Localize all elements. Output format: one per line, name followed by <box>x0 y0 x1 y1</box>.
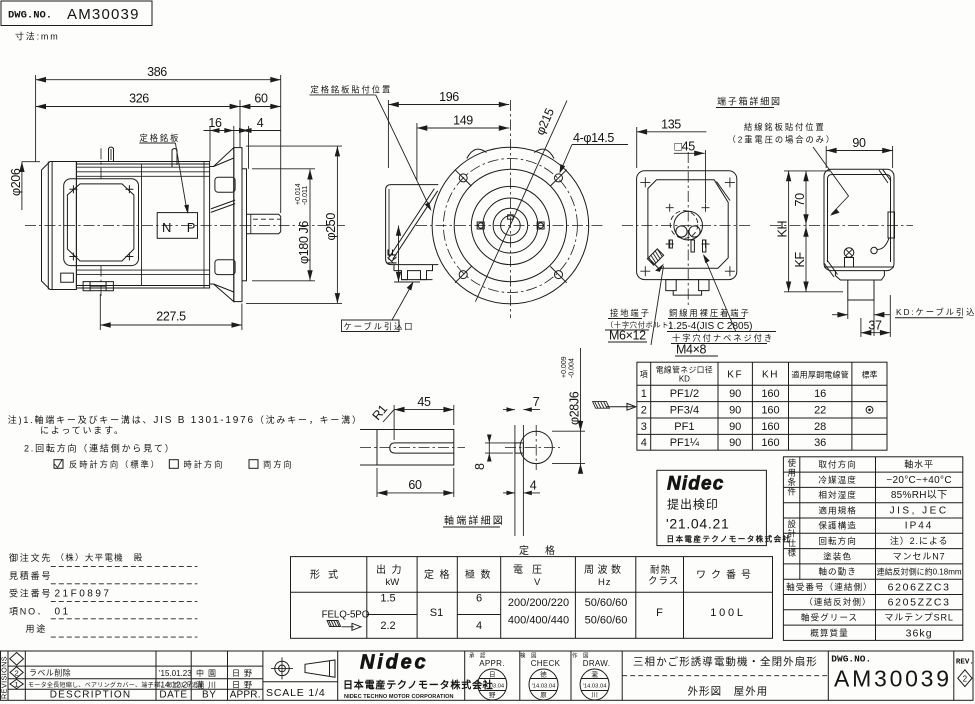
svg-text:22: 22 <box>814 404 826 416</box>
svg-text:KF: KF <box>386 249 400 265</box>
svg-text:KH: KH <box>762 370 779 381</box>
svg-text:'15.01.23: '15.01.23 <box>159 669 192 678</box>
svg-text:結線銘板貼付位置: 結線銘板貼付位置 <box>744 122 826 132</box>
svg-text:φ206: φ206 <box>9 168 23 196</box>
inner + marks <box>666 204 710 248</box>
svg-text:PF1: PF1 <box>674 421 694 433</box>
svg-text:4: 4 <box>530 479 537 493</box>
svg-text:JIS, JEC: JIS, JEC <box>890 505 949 516</box>
svg-text:軸の動き: 軸の動き <box>818 566 857 577</box>
svg-text:φ28J6: φ28J6 <box>568 391 582 425</box>
svg-text:Nidec: Nidec <box>360 652 428 674</box>
svg-text:KH: KH <box>776 221 790 238</box>
svg-text:塗装色: 塗装色 <box>823 550 852 561</box>
svg-text:'21.04.21: '21.04.21 <box>666 516 729 532</box>
svg-text:2.回転方向（連結側から見て）: 2.回転方向（連結側から見て） <box>24 443 176 454</box>
svg-text:銅線用裸圧着端子: 銅線用裸圧着端子 <box>669 308 751 318</box>
svg-text:326: 326 <box>129 92 149 106</box>
svg-text:KF: KF <box>727 370 743 381</box>
svg-text:36: 36 <box>814 437 826 449</box>
svg-text:4: 4 <box>476 620 482 632</box>
feet under body <box>83 282 113 291</box>
svg-text:Hz: Hz <box>598 577 612 588</box>
svg-text:反時計方向（標準）: 反時計方向（標準） <box>69 460 161 470</box>
svg-text:日: 日 <box>489 671 496 679</box>
svg-text:S1: S1 <box>430 607 443 619</box>
svg-text:−20°C~+40°C: −20°C~+40°C <box>886 475 952 486</box>
svg-text:135: 135 <box>661 118 681 132</box>
svg-text:φ180 J6: φ180 J6 <box>297 221 311 264</box>
svg-text:90: 90 <box>729 404 741 416</box>
svg-text:100L: 100L <box>710 607 745 619</box>
svg-text:見積番号: 見積番号 <box>9 570 52 581</box>
lifting lug bumps on rim <box>467 149 487 158</box>
svg-text:条: 条 <box>788 477 797 487</box>
svg-text:4-φ14.5: 4-φ14.5 <box>573 131 614 145</box>
svg-text:CHECK: CHECK <box>531 659 561 668</box>
svg-text:DWG.NO.: DWG.NO. <box>8 10 52 22</box>
centerlines <box>416 225 604 227</box>
dim 149 <box>417 127 509 129</box>
svg-text:6205ZZC3: 6205ZZC3 <box>888 597 951 609</box>
svg-text:設: 設 <box>788 519 797 529</box>
svg-text:外形図 屋外用: 外形図 屋外用 <box>688 686 769 698</box>
svg-text:2: 2 <box>963 675 968 684</box>
svg-text:軸受番号（連結側）: 軸受番号（連結側） <box>786 581 873 592</box>
svg-text:'14.03.04: '14.03.04 <box>532 684 556 690</box>
svg-text:軸端詳細図: 軸端詳細図 <box>444 514 505 527</box>
svg-text:受注番号: 受注番号 <box>9 588 52 599</box>
svg-text:件: 件 <box>788 487 797 497</box>
svg-text:R1: R1 <box>370 402 391 423</box>
category vertical labels <box>788 458 797 558</box>
svg-text:定格: 定格 <box>424 568 455 581</box>
svg-text:FELQ-5PO: FELQ-5PO <box>322 610 370 621</box>
svg-text:回転方向: 回転方向 <box>818 535 857 546</box>
centerline <box>25 225 345 227</box>
values <box>877 459 962 640</box>
dim 7 top <box>503 409 515 411</box>
svg-text:4: 4 <box>257 116 264 130</box>
svg-text:寸法:mm: 寸法:mm <box>15 31 60 42</box>
svg-text:90: 90 <box>729 437 741 449</box>
svg-text:出力: 出力 <box>376 563 407 576</box>
svg-text:196: 196 <box>439 90 459 104</box>
svg-text:保護構造: 保護構造 <box>818 520 857 531</box>
svg-text:形式: 形式 <box>310 568 346 581</box>
shaft <box>247 214 281 234</box>
svg-text:1: 1 <box>641 388 647 400</box>
dim phi206 <box>21 162 23 210</box>
svg-text:KF: KF <box>793 252 807 268</box>
svg-text:定格: 定格 <box>519 544 571 557</box>
svg-text:M6×12: M6×12 <box>609 329 646 343</box>
dim 386 <box>36 79 281 81</box>
svg-text:1.25-4(JIS C 2805): 1.25-4(JIS C 2805) <box>668 321 753 332</box>
svg-text:定格銘板: 定格銘板 <box>140 133 181 143</box>
KD arrows at neck <box>832 314 848 316</box>
svg-text:70: 70 <box>793 193 807 207</box>
pilot step <box>242 169 247 281</box>
dim 326 <box>36 106 240 108</box>
table frame <box>637 362 887 450</box>
key cross-section <box>515 443 524 453</box>
outer circle <box>432 147 589 304</box>
svg-text:APPR.: APPR. <box>230 690 261 701</box>
svg-text:149: 149 <box>453 114 473 128</box>
left row lines <box>8 665 263 667</box>
conduit plug on right wall <box>888 212 895 238</box>
svg-text:28: 28 <box>814 421 826 433</box>
4 flange holes with diagonal ticks <box>455 170 567 283</box>
terminal screws <box>669 240 706 252</box>
70 / KF dims <box>805 171 807 292</box>
svg-text:50/60/60: 50/60/60 <box>585 615 628 627</box>
svg-text:用途: 用途 <box>26 623 48 634</box>
svg-text:（連結反対側）: （連結反対側） <box>804 596 871 607</box>
svg-text:SCALE 1/4: SCALE 1/4 <box>266 687 326 699</box>
svg-text:DATE: DATE <box>159 690 187 701</box>
svg-text:AM30039: AM30039 <box>834 666 952 692</box>
svg-text:軸受グリース: 軸受グリース <box>801 612 858 623</box>
checkbox 3 <box>249 460 258 469</box>
dim phi250 <box>336 146 338 303</box>
svg-text:項NO．: 項NO． <box>9 607 48 617</box>
svg-text:160: 160 <box>761 404 779 416</box>
svg-text:1.5: 1.5 <box>380 593 395 605</box>
svg-text:瀧: 瀧 <box>591 670 598 679</box>
dim phi180 J6 <box>309 169 311 280</box>
inner cover octagon <box>648 180 728 268</box>
svg-text:90: 90 <box>852 136 866 150</box>
keyway slot <box>390 443 454 453</box>
svg-text:21F0897: 21F0897 <box>55 589 112 600</box>
svg-text:227.5: 227.5 <box>156 310 186 324</box>
svg-text:瀧川: 瀧川 <box>196 679 220 689</box>
center gland circle <box>674 211 703 240</box>
dim 90 <box>826 150 892 152</box>
svg-text:注）2.による: 注）2.による <box>890 535 949 546</box>
svg-text:1: 1 <box>15 680 19 689</box>
svg-text:PF1¼: PF1¼ <box>670 437 700 449</box>
svg-text:45: 45 <box>417 395 431 409</box>
svg-text:川: 川 <box>591 692 598 699</box>
svg-text:+0.009: +0.009 <box>561 356 568 378</box>
svg-text:野: 野 <box>489 691 496 699</box>
corner + marks <box>640 177 735 276</box>
svg-text:M4×8: M4×8 <box>676 343 707 357</box>
standard mark double circle <box>866 406 873 413</box>
svg-text:16: 16 <box>208 116 222 130</box>
svg-text:日本電産テクノモータ株式会社: 日本電産テクノモータ株式会社 <box>343 679 494 692</box>
svg-text:用: 用 <box>788 468 797 478</box>
glands below box <box>666 280 709 291</box>
svg-text:+0.014: +0.014 <box>295 183 302 205</box>
svg-text:三相かご形誘導電動機・全閉外扇形: 三相かご形誘導電動機・全閉外扇形 <box>633 655 818 668</box>
svg-text:原: 原 <box>540 691 547 699</box>
svg-text:マルテンプSRL: マルテンプSRL <box>884 613 953 623</box>
svg-text:Nidec: Nidec <box>667 474 724 495</box>
svg-text:（株）大平電機 殿: （株）大平電機 殿 <box>56 553 144 563</box>
phi28 dim <box>552 430 585 432</box>
svg-text:4: 4 <box>641 437 647 449</box>
cable glands below box <box>394 265 433 280</box>
svg-text:6: 6 <box>476 593 482 605</box>
svg-text:'14.12.27: '14.12.27 <box>159 680 192 689</box>
centerlines <box>687 152 689 308</box>
svg-text:相対湿度: 相対湿度 <box>818 489 857 500</box>
svg-text:中園: 中園 <box>196 668 220 678</box>
svg-text:85%RH以下: 85%RH以下 <box>891 490 948 501</box>
svg-text:REVISIONS: REVISIONS <box>0 656 9 699</box>
svg-text:'14.03.04: '14.03.04 <box>480 684 504 690</box>
motor body <box>76 162 209 289</box>
svg-text:37: 37 <box>868 319 882 333</box>
svg-text:200/200/220: 200/200/220 <box>508 597 569 609</box>
svg-text:ケーブル引込口: ケーブル引込口 <box>344 322 415 332</box>
svg-text:160: 160 <box>761 388 779 400</box>
wire <box>877 238 890 250</box>
2 side tapped holes <box>477 222 544 229</box>
svg-text:3: 3 <box>641 421 647 433</box>
spigot circle <box>454 169 566 281</box>
svg-text:V: V <box>534 577 541 588</box>
svg-text:-0.004: -0.004 <box>569 358 576 378</box>
svg-text:適用厚鋼電線管: 適用厚鋼電線管 <box>791 370 849 380</box>
svg-text:御注文先: 御注文先 <box>9 552 52 563</box>
svg-text:φ250: φ250 <box>324 213 338 241</box>
svg-text:標準: 標準 <box>862 370 878 380</box>
dim 16 and 4 <box>204 130 281 132</box>
svg-text:様: 様 <box>788 548 797 558</box>
frame <box>1 651 974 700</box>
shaft circle with key <box>501 216 521 236</box>
svg-text:50/60/60: 50/60/60 <box>585 597 628 609</box>
phi215 leader diagonal <box>475 101 567 302</box>
svg-text:16: 16 <box>814 388 826 400</box>
svg-text:□45: □45 <box>675 140 696 154</box>
svg-text:90: 90 <box>729 421 741 433</box>
svg-text:400/400/440: 400/400/440 <box>508 615 569 627</box>
centerlines <box>770 225 913 227</box>
end view circle <box>520 431 552 463</box>
svg-text:160: 160 <box>761 421 779 433</box>
svg-text:（2重電圧の場合のみ）: （2重電圧の場合のみ） <box>728 135 837 145</box>
dim 4 bottom <box>503 492 515 494</box>
bolt circle dash-dot <box>443 159 577 293</box>
svg-text:6206ZZC3: 6206ZZC3 <box>888 581 951 593</box>
flange plate <box>234 148 242 302</box>
svg-text:KD:ケーブル引込口: KD:ケーブル引込口 <box>896 307 975 317</box>
checkbox 2 <box>169 460 178 469</box>
svg-text:2: 2 <box>15 668 19 677</box>
svg-text:F: F <box>656 607 663 619</box>
svg-text:ワク番号: ワク番号 <box>696 569 756 581</box>
svg-text:定格銘板貼付位置: 定格銘板貼付位置 <box>311 85 393 95</box>
svg-text:φ215: φ215 <box>533 106 557 137</box>
svg-text:注)1.軸端キー及びキー溝は、JIS B 1301-1976: 注)1.軸端キー及びキー溝は、JIS B 1301-1976（沈みキー，キー溝） <box>8 414 363 426</box>
flange bracket <box>210 148 234 302</box>
svg-text:REV.: REV. <box>956 659 974 667</box>
svg-text:DWG.NO.: DWG.NO. <box>831 654 871 665</box>
dim 60 <box>240 106 281 108</box>
dim 45 <box>394 409 454 411</box>
svg-text:'14.03.04: '14.03.04 <box>583 684 607 690</box>
KH dim <box>788 171 790 292</box>
svg-text:8: 8 <box>473 463 487 470</box>
svg-text:電線管ネジ口径: 電線管ネジ口径 <box>656 365 713 375</box>
svg-text:90: 90 <box>729 388 741 400</box>
svg-text:概算質量: 概算質量 <box>810 627 849 638</box>
terminal box cover seen in side view <box>64 179 139 266</box>
checkbox checked <box>54 460 63 469</box>
svg-text:徳: 徳 <box>540 670 547 679</box>
svg-text:日野: 日野 <box>232 680 256 689</box>
svg-text:-0.011: -0.011 <box>302 186 309 205</box>
rows <box>641 388 827 449</box>
svg-text:160: 160 <box>761 437 779 449</box>
svg-text:01: 01 <box>55 607 71 618</box>
svg-text:PF1/2: PF1/2 <box>670 388 699 400</box>
svg-text:2: 2 <box>641 404 647 416</box>
svg-text:耐熱: 耐熱 <box>650 564 671 576</box>
svg-text:両方向: 両方向 <box>263 460 294 470</box>
bottom gland <box>835 271 884 280</box>
dim 227.5 <box>100 324 242 326</box>
svg-text:KD: KD <box>679 375 690 384</box>
labels <box>786 459 873 638</box>
svg-text:APPR.: APPR. <box>479 659 505 668</box>
dim 196 <box>388 104 509 106</box>
terminal box on left <box>386 185 439 265</box>
37 dim <box>861 332 890 334</box>
ground screw hatched <box>647 249 663 265</box>
svg-text:DRAW.: DRAW. <box>583 659 611 668</box>
svg-text:極数: 極数 <box>465 568 496 581</box>
revision diamonds <box>10 653 24 666</box>
svg-text:電圧: 電圧 <box>513 564 551 576</box>
svg-text:提出検印: 提出検印 <box>667 497 719 512</box>
svg-text:60: 60 <box>408 478 422 492</box>
svg-text:クラス: クラス <box>648 576 679 587</box>
svg-text:N P: N P <box>162 220 201 235</box>
hatch flag pointing to row 2 <box>593 402 610 409</box>
slanted nameplate on box <box>390 189 438 259</box>
slant ticks <box>879 169 891 183</box>
svg-text:日本電産テクノモータ株式会社: 日本電産テクノモータ株式会社 <box>667 534 792 544</box>
dim 135 <box>637 131 707 133</box>
svg-text:使: 使 <box>788 458 797 468</box>
svg-text:接地端子: 接地端子 <box>610 308 651 318</box>
stamp columns <box>469 652 610 669</box>
svg-text:冷媒温度: 冷媒温度 <box>818 474 857 485</box>
side view of shaft end <box>377 430 454 466</box>
svg-text:周波数: 周波数 <box>584 563 625 576</box>
svg-text:日野: 日野 <box>232 669 256 678</box>
extension lines top dims <box>35 75 37 162</box>
svg-text:十字穴付ナベネジ付き: 十字穴付ナベネジ付き <box>672 333 774 343</box>
svg-text:60: 60 <box>254 92 268 106</box>
svg-text:7: 7 <box>533 395 540 409</box>
svg-text:取付方向: 取付方向 <box>818 459 857 470</box>
box outline <box>637 171 737 280</box>
dim 8 left <box>488 436 490 458</box>
svg-text:項: 項 <box>640 370 648 379</box>
svg-text:2.2: 2.2 <box>380 620 395 632</box>
svg-text:連結反対側に約0.18mm: 連結反対側に約0.18mm <box>877 567 962 577</box>
dim 60 <box>377 492 454 494</box>
svg-text:適用規格: 適用規格 <box>818 504 857 515</box>
svg-text:軸水平: 軸水平 <box>904 459 934 470</box>
svg-text:386: 386 <box>147 65 167 79</box>
eye bolts on top <box>109 147 114 162</box>
svg-text:DESCRIPTION: DESCRIPTION <box>50 690 132 701</box>
svg-text:IP44: IP44 <box>905 521 934 532</box>
svg-text:BY: BY <box>202 690 217 701</box>
svg-text:端子箱詳細図: 端子箱詳細図 <box>717 96 782 107</box>
svg-text:AM30039: AM30039 <box>67 6 140 23</box>
svg-text:ラベル削除: ラベル削除 <box>29 668 71 678</box>
fan cover <box>42 162 77 290</box>
KF dimension <box>398 226 400 283</box>
svg-text:マンセルN7: マンセルN7 <box>893 551 946 561</box>
svg-text:PF3/4: PF3/4 <box>670 404 699 416</box>
nameplate N P <box>157 213 197 239</box>
svg-text:36kg: 36kg <box>906 627 933 639</box>
svg-text:kW: kW <box>386 577 400 588</box>
terminal screw inside <box>844 248 854 258</box>
svg-text:によっています。: によっています。 <box>40 426 125 436</box>
box outline <box>824 169 894 270</box>
svg-text:NIDEC TECHNO MOTOR CORPORATION: NIDEC TECHNO MOTOR CORPORATION <box>344 694 454 700</box>
scale cell: projection symbols <box>275 661 289 675</box>
svg-text:時計方向: 時計方向 <box>184 460 225 470</box>
